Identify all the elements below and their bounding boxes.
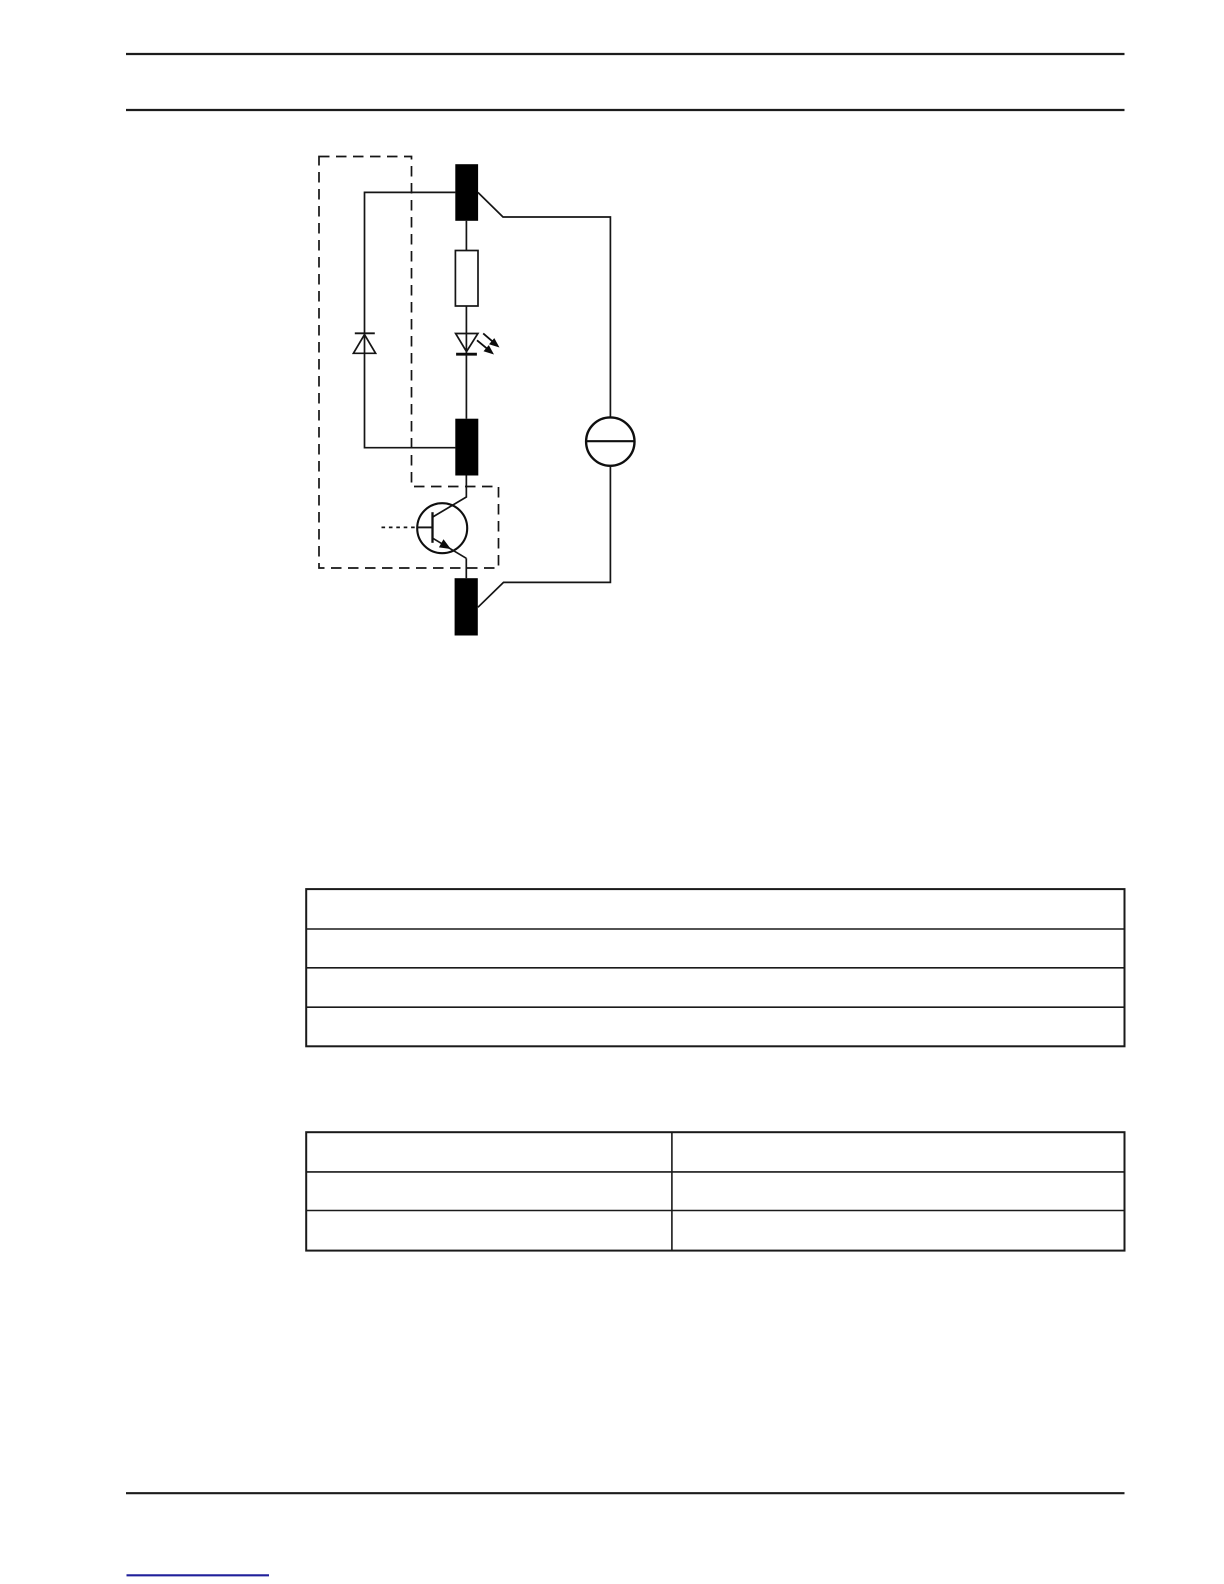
wire: LED to middle pad [465, 354, 467, 419]
wire: pin1 pad to resistor [465, 221, 467, 251]
table 2 row line 1 [306, 1171, 1124, 1173]
table 2 column divider [671, 1132, 673, 1250]
footer rule [126, 1492, 1125, 1494]
resistor R1 [455, 251, 478, 307]
wire: middle pad to transistor collector [433, 476, 467, 518]
table 1 row line 2 [306, 967, 1124, 969]
wire: pin1 pad to left branch top [365, 192, 456, 353]
LED light arrow 1 [483, 333, 499, 347]
current source CS1 chord [586, 440, 634, 442]
terminal pad pin 2 (cathode / collector) [455, 419, 478, 476]
transistor Q1 circle [417, 503, 467, 553]
transistor Q1 emitter arrowhead [439, 539, 451, 549]
header rule bottom [126, 109, 1125, 111]
footer link underline (blue) [127, 1574, 270, 1576]
terminal pad pin 3 (emitter) [455, 578, 478, 635]
transistor Q1 base bar [431, 512, 433, 543]
table 2 (empty, 3 rows x 2 cols) outer border [306, 1132, 1124, 1250]
table 2 row line 2 [306, 1210, 1124, 1212]
wire: diode anode to middle pad [365, 353, 456, 447]
LED D2 triangle [456, 334, 478, 352]
LED light arrow 2 [477, 340, 494, 354]
wire: current source to pin 3 (bottom right) [478, 466, 611, 608]
transistor Q1 emitter line [433, 538, 467, 558]
transistor Q1 base lead (solid inside circle) [417, 526, 433, 528]
package outline (dashed, photocoupler + transistor step) [319, 157, 499, 569]
terminal pad pin 1 (anode) [455, 164, 478, 221]
diode D1 triangle [353, 335, 375, 354]
transistor Q1 base lead (dashed) [382, 526, 417, 528]
table 1 row line 1 [306, 928, 1124, 930]
diode D1 cathode bar [355, 332, 375, 334]
wire: pin1 to current source (top right) [478, 192, 611, 417]
header rule top [126, 53, 1125, 55]
LED D2 cathode bar [456, 353, 477, 356]
table 1 (empty, 4 rows) outer border [306, 889, 1124, 1046]
wire: emitter to bottom pad [465, 558, 467, 578]
wire: resistor to LED [465, 306, 467, 354]
table 1 row line 3 [306, 1006, 1124, 1008]
current source CS1 circle [586, 417, 634, 465]
